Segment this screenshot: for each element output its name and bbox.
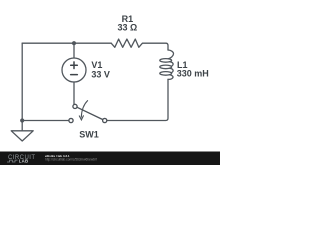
footer CircuitLab logo waveform bbox=[7, 160, 18, 162]
svg-text:33 V: 33 V bbox=[91, 69, 110, 79]
wire bottom-left (switch left terminal to ground node) bbox=[22, 120, 69, 122]
resistor R1 bbox=[111, 39, 142, 47]
wire top-left horizontal bbox=[22, 42, 111, 44]
svg-text:http://circuitlab.com/c/563mw6: http://circuitlab.com/c/563mw6bew6rf bbox=[45, 157, 97, 161]
wire left rail bbox=[21, 43, 23, 120]
wire V1 top stem bbox=[73, 43, 75, 58]
wire right rail down + bottom-right corner bbox=[107, 80, 168, 121]
svg-text:33 Ω: 33 Ω bbox=[118, 22, 138, 32]
svg-text:LAB: LAB bbox=[19, 159, 29, 164]
voltage source V1 circle bbox=[62, 58, 86, 82]
SW1 right terminal bbox=[103, 118, 107, 122]
SW1 blade bbox=[77, 107, 103, 119]
V1 plus sign bbox=[71, 62, 78, 75]
svg-text:330 mH: 330 mH bbox=[177, 68, 209, 78]
wire V1 bottom stem bbox=[73, 82, 75, 104]
svg-text:SW1: SW1 bbox=[79, 129, 99, 139]
ground bbox=[11, 131, 33, 141]
footer bar bbox=[0, 152, 220, 166]
SW1 actuator arrow bbox=[81, 101, 87, 118]
SW1 left terminal bbox=[69, 118, 73, 122]
node junction dot at V1 top bbox=[72, 41, 76, 45]
inductor L1 bbox=[168, 50, 174, 59]
SW1 top terminal bbox=[73, 104, 77, 108]
switch SW1 bbox=[69, 101, 107, 123]
node junction dot at ground bbox=[20, 118, 24, 122]
wire ground stem bbox=[21, 121, 23, 131]
V1 minus sign bbox=[71, 74, 78, 76]
wire resistor to top-right corner bbox=[143, 43, 168, 50]
